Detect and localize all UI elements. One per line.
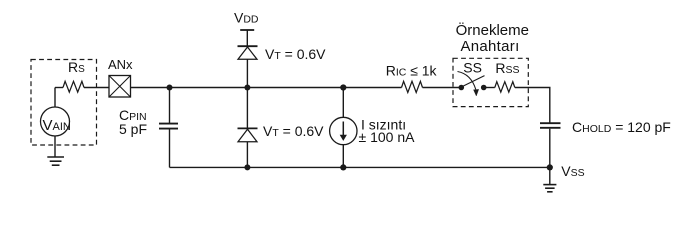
sampling switch box (dashed) bbox=[453, 58, 528, 106]
power VDD bbox=[234, 10, 259, 46]
wire RIC to switch bbox=[423, 87, 462, 89]
wire Rss to CHOLD corner bbox=[515, 88, 550, 124]
wire junction to CPIN bbox=[169, 88, 171, 124]
resistor Rss bbox=[495, 60, 520, 92]
capacitor CHOLD bbox=[540, 119, 671, 135]
svg-text:Anahtarı: Anahtarı bbox=[460, 38, 519, 55]
wire VAIN bottom to ground bbox=[54, 136, 56, 157]
node diode column top junction bbox=[244, 85, 250, 91]
wire VSS to ground bbox=[549, 167, 551, 184]
svg-text:5 pF: 5 pF bbox=[119, 121, 147, 137]
resistor Rs bbox=[63, 59, 85, 92]
node diode column bottom junction bbox=[244, 164, 250, 170]
capacitor CPIN bbox=[119, 107, 178, 137]
svg-text:ANx: ANx bbox=[108, 57, 133, 72]
svg-text:VT = 0.6V: VT = 0.6V bbox=[265, 46, 326, 62]
ground (right) bbox=[543, 185, 556, 192]
node VSS junction bbox=[547, 164, 553, 170]
svg-text:VT = 0.6V: VT = 0.6V bbox=[263, 123, 324, 139]
wire Rs to pin ANx bbox=[84, 87, 109, 89]
ground (left) bbox=[47, 157, 64, 165]
current source I leakage bbox=[330, 88, 416, 168]
bottom rail wire bbox=[170, 166, 550, 168]
voltage source VAIN bbox=[41, 107, 71, 136]
diode D1 (to VDD), VT = 0.6V bbox=[238, 46, 327, 88]
svg-text:± 100 nA: ± 100 nA bbox=[359, 129, 416, 145]
wire VAIN top to corner bbox=[54, 88, 56, 108]
svg-text:RIC ≤ 1k: RIC ≤ 1k bbox=[386, 62, 438, 78]
svg-text:SS: SS bbox=[463, 59, 482, 75]
source box (dashed) bbox=[31, 60, 97, 146]
node current source top junction bbox=[340, 84, 346, 90]
node CPIN top junction bbox=[167, 85, 173, 91]
wire switch to Rss bbox=[484, 87, 495, 89]
node current source bottom junction bbox=[340, 164, 346, 170]
label Örnekleme Anahtarı bbox=[456, 21, 529, 55]
diode D2 (to VSS), VT = 0.6V bbox=[238, 88, 325, 168]
wire corner to resistor Rs bbox=[55, 87, 63, 89]
wire CPIN to rail bbox=[169, 130, 171, 168]
wire ANx to RIC bbox=[131, 87, 402, 89]
resistor RIC bbox=[386, 62, 438, 92]
switch SS bbox=[458, 59, 487, 96]
wire CHOLD to rail bbox=[549, 129, 551, 168]
pin ANx bbox=[108, 57, 133, 97]
svg-text:Örnekleme: Örnekleme bbox=[456, 21, 529, 39]
